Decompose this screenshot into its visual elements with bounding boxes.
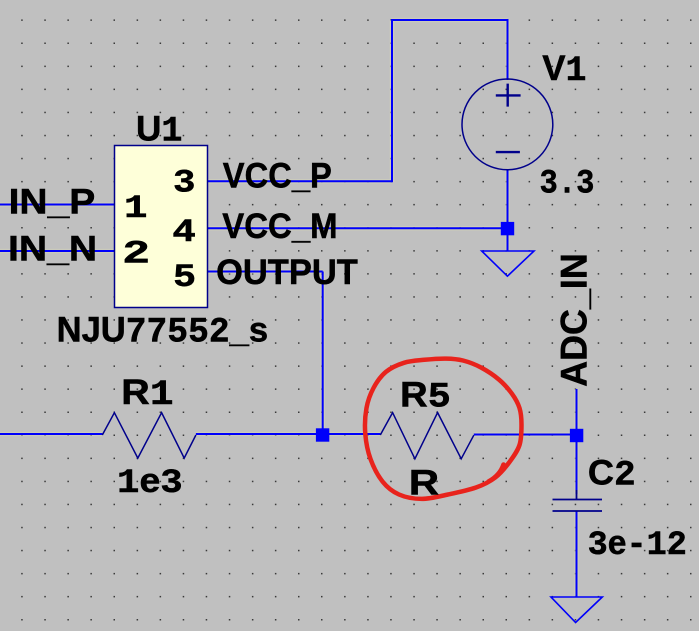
svg-text:R: R (409, 463, 439, 503)
voltage source V1 circle (462, 79, 553, 170)
svg-text:IN_N: IN_N (8, 229, 97, 269)
wire left to R1 (0, 433, 102, 435)
svg-text:IN_P: IN_P (9, 181, 96, 221)
wire V1 bottom to ground (507, 169, 509, 251)
svg-text:VCC_M: VCC_M (222, 206, 337, 246)
wire VCC_P from pin 3 (208, 180, 393, 182)
wire OUTPUT from pin 5 (208, 271, 323, 273)
svg-text:1e3: 1e3 (117, 462, 183, 503)
svg-text:1: 1 (124, 190, 148, 227)
wire R5 to junction ADC_IN (474, 434, 577, 436)
svg-text:V1: V1 (542, 48, 586, 91)
wire down to V1 top (507, 19, 509, 80)
svg-text:R1: R1 (121, 372, 173, 415)
wire top horizontal (391, 19, 508, 21)
V1 plus sign (496, 84, 521, 107)
svg-text:ADC_IN: ADC_IN (554, 253, 595, 387)
svg-text:VCC_P: VCC_P (223, 155, 332, 195)
svg-text:2: 2 (122, 236, 150, 273)
capacitor C2 plates (553, 490, 603, 511)
wire VCC_P vertical up (391, 20, 393, 182)
svg-text:C2: C2 (588, 453, 636, 496)
wire ADC_IN label down to C2 (576, 389, 578, 494)
svg-text:4: 4 (172, 214, 196, 251)
wire IN_N to pin 2 (0, 250, 115, 252)
wire R1 to R5 through junction (196, 433, 380, 435)
junction node at V1 minus / VCC_M (501, 222, 514, 235)
V1 minus sign (496, 151, 520, 153)
svg-text:NJU77552_s: NJU77552_s (57, 309, 269, 352)
svg-text:5: 5 (173, 259, 196, 296)
svg-text:3e-12: 3e-12 (588, 524, 687, 565)
wire OUTPUT down to R line (322, 272, 324, 435)
wire VCC_M from pin 4 to junction (208, 227, 508, 229)
svg-text:U1: U1 (136, 109, 183, 152)
svg-text:3.3: 3.3 (540, 165, 595, 204)
wire C2 to ground (576, 511, 578, 597)
resistor R5 zigzag (380, 413, 474, 459)
resistor R1 zigzag (102, 413, 196, 458)
wire IN_P to pin 1 (0, 204, 115, 206)
ground symbol below V1 (482, 251, 534, 276)
svg-text:R5: R5 (400, 374, 451, 417)
junction node ADC_IN / R5 / C2 (570, 429, 583, 442)
ground symbol below C2 (551, 597, 602, 623)
svg-text:3: 3 (173, 165, 196, 202)
red annotation circle around R5 (365, 359, 522, 499)
junction node OUTPUT / R line (316, 428, 329, 441)
svg-text:OUTPUT: OUTPUT (216, 252, 358, 292)
op-amp U1 body NJU77552_s (115, 146, 208, 308)
